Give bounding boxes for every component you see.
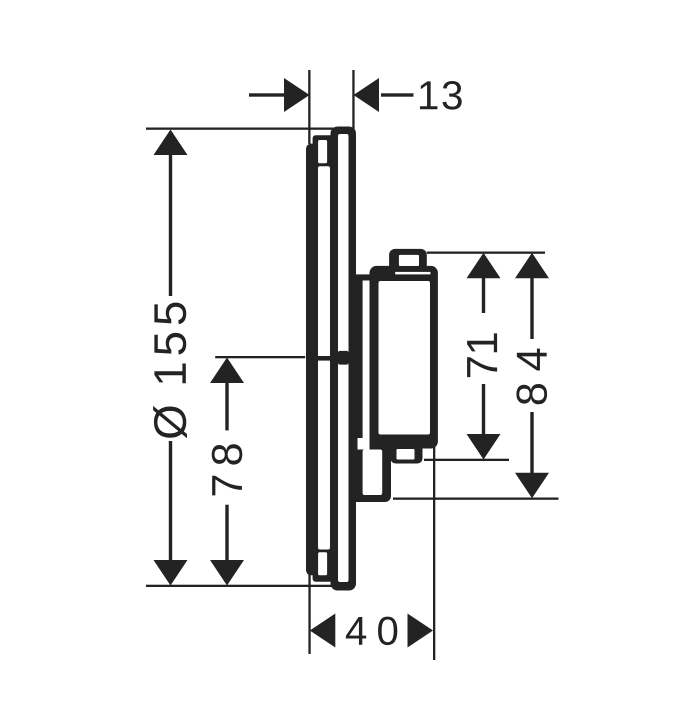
extension line 13 left	[308, 70, 310, 144]
label 13	[420, 81, 462, 110]
valve rear flange / leg left column	[356, 278, 363, 502]
bracket flange-to-cap	[356, 274, 372, 280]
extension line 71 bottom	[424, 459, 509, 461]
top knob (solid black base)	[389, 249, 427, 271]
front plate top window white	[318, 140, 327, 163]
dim line 84 lower segment	[530, 412, 533, 473]
arrow 40 pointing right	[408, 614, 434, 648]
label diameter 155	[153, 303, 187, 439]
dim line 71 lower segment	[482, 384, 485, 434]
arrow 84 down	[515, 473, 549, 499]
label 40	[346, 617, 397, 645]
body interior white	[379, 281, 431, 435]
rear sleeve slab (solid black base)	[331, 127, 357, 591]
dim line diameter155 lower segment	[169, 441, 172, 561]
dim 13 right tail	[381, 93, 414, 96]
centre tick large (sleeve)	[338, 351, 349, 365]
dim line 71 upper segment	[482, 277, 485, 313]
extension line 40 left	[308, 568, 310, 654]
extension line 155/78 bottom	[146, 585, 334, 587]
centre tick small (front plate)	[318, 356, 331, 361]
sleeve interior white	[338, 134, 349, 582]
label 71	[467, 333, 497, 377]
cap sliver white	[395, 272, 430, 275]
knob window white	[399, 255, 419, 266]
gap notch white above leg	[358, 438, 370, 450]
arrow 84 up	[515, 253, 549, 278]
arrow 71 down	[467, 434, 501, 460]
arrow 78 down	[210, 560, 244, 586]
arrow 78 up	[210, 358, 244, 384]
front plate raised bottom cap	[313, 567, 336, 582]
arrow 13 pointing right	[284, 78, 310, 112]
dim line 84 upper segment	[530, 277, 533, 339]
front plate bottom window white	[318, 552, 327, 575]
arrow 71 up	[467, 253, 501, 278]
leg interior white	[363, 450, 383, 496]
front plate interior white	[318, 166, 330, 549]
foot window white	[397, 449, 415, 460]
label 84	[516, 349, 547, 405]
dim line diameter155 upper segment	[169, 154, 172, 296]
extension line 84 bottom	[393, 498, 559, 500]
dim line 78 upper segment	[225, 382, 228, 430]
arrow 40 pointing left	[310, 614, 336, 648]
front plate slab (solid black base)	[306, 144, 338, 576]
extension line centreline 78	[215, 356, 305, 358]
extension line 71/84 top	[427, 252, 545, 254]
bottom leg (solid black base)	[356, 442, 392, 502]
extension line 13 right	[352, 70, 354, 131]
dim line 78 lower segment	[225, 505, 228, 561]
extension line 40 right	[433, 446, 435, 660]
arrow 13 pointing left	[354, 78, 380, 112]
arrow diameter155 up	[154, 130, 188, 156]
bottom foot (solid black base)	[391, 442, 423, 464]
extension line diameter155 top	[146, 128, 354, 130]
front plate raised top cap	[313, 135, 336, 151]
dim 13 left tail	[249, 93, 284, 96]
arrow diameter155 down	[154, 560, 188, 586]
valve body (solid black base)	[370, 266, 438, 449]
label 78	[212, 444, 243, 495]
